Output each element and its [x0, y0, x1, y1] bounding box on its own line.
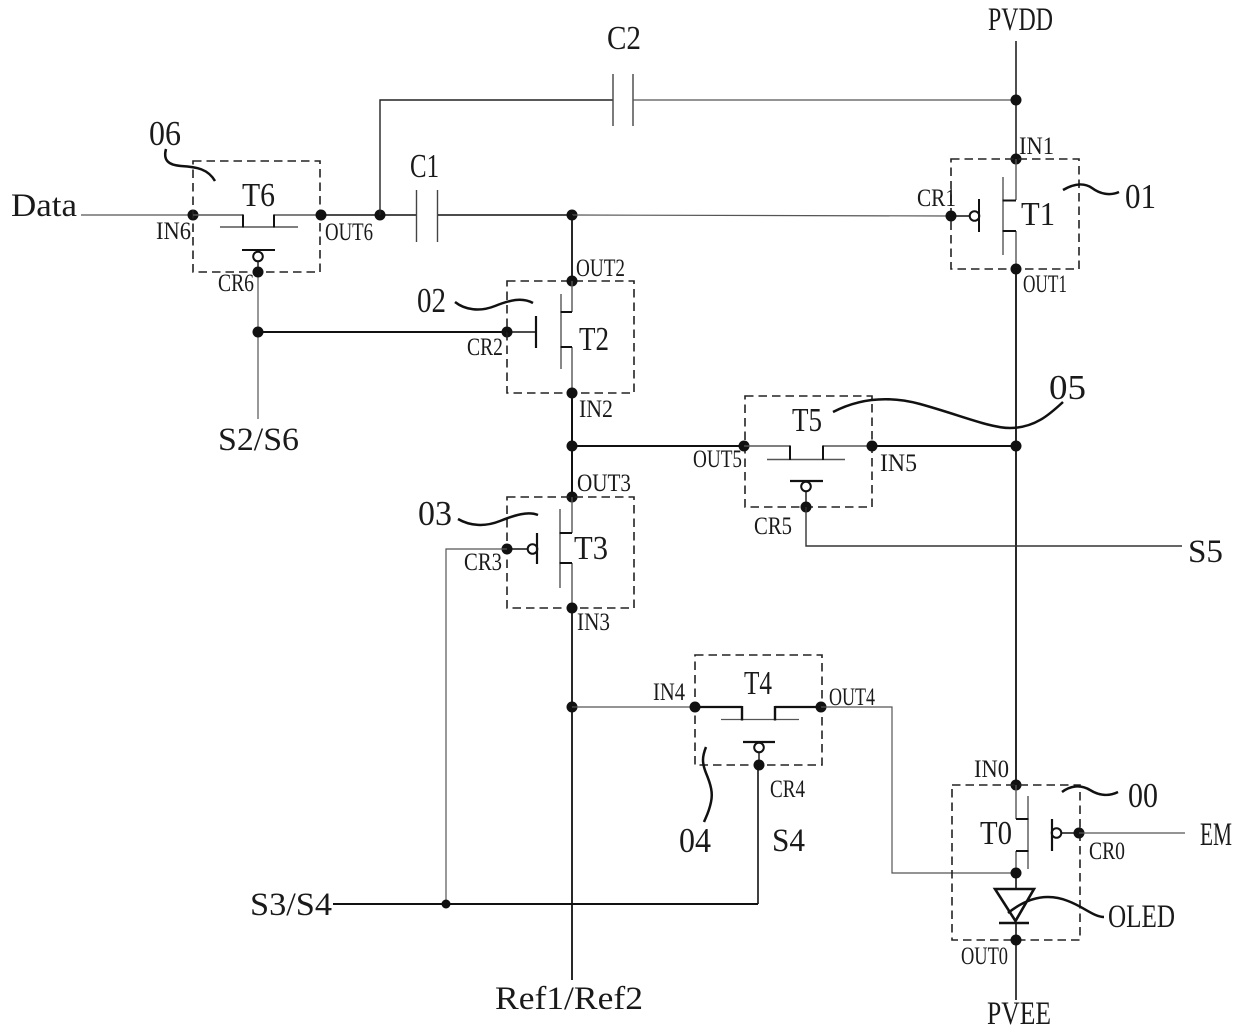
wire junction to CR2 [258, 331, 507, 333]
node OUT0 [1011, 935, 1022, 946]
wire PVDD drop [1015, 41, 1017, 159]
node CR3 [502, 544, 513, 555]
node S3/S4 junction [442, 900, 451, 909]
svg-text:C2: C2 [607, 20, 641, 57]
svg-text:05: 05 [1049, 368, 1086, 407]
svg-text:OLED: OLED [1108, 899, 1175, 935]
transistor T4 symbol [695, 706, 821, 721]
svg-text:T0: T0 [980, 815, 1012, 852]
transistor T4 box [695, 655, 822, 765]
svg-text:C1: C1 [410, 148, 439, 185]
transistor T6 symbol [193, 215, 321, 228]
node PVDD junction [1011, 95, 1022, 106]
svg-text:06: 06 [149, 114, 181, 153]
transistor T1 symbol [1003, 159, 1017, 269]
svg-text:PVEE: PVEE [987, 996, 1051, 1032]
node CR6 branch junction [253, 327, 264, 338]
leader squiggle 03 [458, 513, 538, 525]
svg-text:T2: T2 [579, 321, 609, 358]
node CR0 [1074, 828, 1085, 839]
wire junction to IN4 [572, 706, 695, 708]
node C2 riser junction [375, 210, 386, 221]
svg-text:CR4: CR4 [770, 776, 805, 803]
wire OUT6 to C1 [321, 214, 417, 216]
svg-text:CR0: CR0 [1089, 838, 1125, 865]
svg-text:02: 02 [417, 281, 446, 320]
leader squiggle 06 [165, 149, 215, 181]
svg-text:CR5: CR5 [754, 513, 792, 540]
node OUT2 [567, 276, 578, 287]
wire junction down to OUT2 [571, 215, 573, 281]
leader squiggle 04 [703, 747, 712, 822]
leader squiggle OLED [1008, 897, 1104, 917]
wire CR3 to S3/S4 line [446, 549, 507, 904]
node C1 right junction [567, 210, 578, 221]
transistor T6 box [193, 161, 320, 272]
node IN2 [567, 388, 578, 399]
leader squiggle 05 [833, 399, 1063, 428]
wire CR5 to S5 [806, 507, 1182, 546]
leader squiggle 01 [1063, 184, 1119, 194]
node IN3 [567, 603, 578, 614]
node CR4 [754, 760, 765, 771]
capacitor C1 [417, 190, 438, 242]
wire IN3 down to Ref [571, 608, 573, 980]
svg-text:03: 03 [418, 494, 452, 533]
wire junction to CR1 [572, 215, 951, 216]
svg-text:OUT6: OUT6 [325, 219, 373, 246]
svg-text:IN2: IN2 [579, 396, 613, 423]
svg-text:OUT4: OUT4 [829, 684, 875, 711]
svg-text:T3: T3 [574, 530, 608, 567]
wire PVEE [1015, 940, 1017, 1000]
wire C2 to PVDD line [633, 99, 1016, 101]
svg-text:CR6: CR6 [218, 270, 254, 297]
node IN6 [188, 210, 199, 221]
node OUT3 [567, 492, 578, 503]
node OUT6 [316, 210, 327, 221]
transistor T3 symbol [560, 497, 573, 608]
wire OUT4 to OLED node [821, 707, 1016, 873]
svg-text:00: 00 [1128, 776, 1158, 815]
node CR5 [801, 502, 812, 513]
svg-text:IN5: IN5 [880, 450, 917, 477]
svg-text:S5: S5 [1188, 534, 1223, 570]
wire OUT1 down to IN0 [1015, 269, 1017, 785]
node OLED anode junction [1011, 868, 1022, 879]
svg-text:S3/S4: S3/S4 [250, 887, 332, 923]
node CR1 [946, 211, 957, 222]
svg-text:S2/S6: S2/S6 [218, 422, 299, 458]
node CR6 [253, 267, 264, 278]
node IN5 [867, 441, 878, 452]
svg-text:OUT0: OUT0 [961, 943, 1008, 970]
wire Data lead [81, 214, 193, 216]
leader squiggle 02 [455, 300, 533, 310]
svg-text:T4: T4 [744, 665, 772, 702]
svg-text:CR1: CR1 [917, 185, 956, 212]
node IN0 [1011, 780, 1022, 791]
svg-text:Ref1/Ref2: Ref1/Ref2 [495, 981, 643, 1017]
svg-text:OUT3: OUT3 [577, 470, 631, 497]
svg-text:01: 01 [1125, 177, 1156, 216]
wire riser to C2 [380, 100, 613, 215]
transistor T0 box [952, 785, 1080, 940]
svg-text:Data: Data [11, 188, 77, 224]
svg-text:T6: T6 [242, 177, 275, 214]
wire junction to OUT5 [572, 445, 744, 447]
svg-text:OUT1: OUT1 [1023, 271, 1067, 298]
node T4 branch junction [567, 702, 578, 713]
wire IN5 to PVDD line [872, 445, 1016, 447]
node CR2 [502, 327, 513, 338]
transistor T5 box [745, 396, 872, 507]
node OUT5 [739, 441, 750, 452]
svg-text:S4: S4 [772, 823, 805, 859]
transistor T3 box [507, 497, 634, 608]
node OUT4 [816, 702, 827, 713]
transistor T1 box [951, 159, 1079, 269]
node T5 branch junction [567, 441, 578, 452]
svg-text:EM: EM [1200, 817, 1232, 853]
node IN4 [690, 702, 701, 713]
diode OLED [995, 873, 1034, 940]
svg-text:IN6: IN6 [156, 218, 191, 245]
leader squiggle 00 [1062, 786, 1118, 795]
svg-text:IN0: IN0 [974, 756, 1009, 783]
transistor T2 box [507, 281, 634, 393]
svg-text:T1: T1 [1021, 196, 1055, 233]
svg-text:OUT2: OUT2 [576, 255, 625, 282]
svg-text:T5: T5 [792, 402, 822, 439]
capacitor C2 [613, 74, 633, 126]
transistor T5 symbol [744, 446, 872, 461]
svg-text:04: 04 [679, 821, 711, 860]
svg-text:OUT5: OUT5 [693, 446, 742, 473]
wire EM [1079, 832, 1185, 834]
svg-text:PVDD: PVDD [988, 2, 1053, 38]
svg-text:IN1: IN1 [1019, 133, 1054, 160]
wire C1 to junction [438, 214, 572, 216]
svg-text:CR2: CR2 [467, 334, 503, 361]
transistor T2 symbol [561, 281, 573, 393]
wire S3/S4 [333, 903, 758, 905]
svg-text:IN4: IN4 [653, 679, 685, 706]
svg-text:CR3: CR3 [464, 549, 502, 576]
node OUT1 [1011, 264, 1022, 275]
transistor T0 symbol [1016, 785, 1029, 873]
wire CR6 drop [257, 272, 259, 419]
wire CR4 down [757, 765, 759, 904]
node IN1 [1011, 154, 1022, 165]
wire IN2 down [571, 393, 573, 497]
node IN5 junction on PVDD line [1011, 441, 1022, 452]
svg-text:IN3: IN3 [577, 609, 610, 636]
